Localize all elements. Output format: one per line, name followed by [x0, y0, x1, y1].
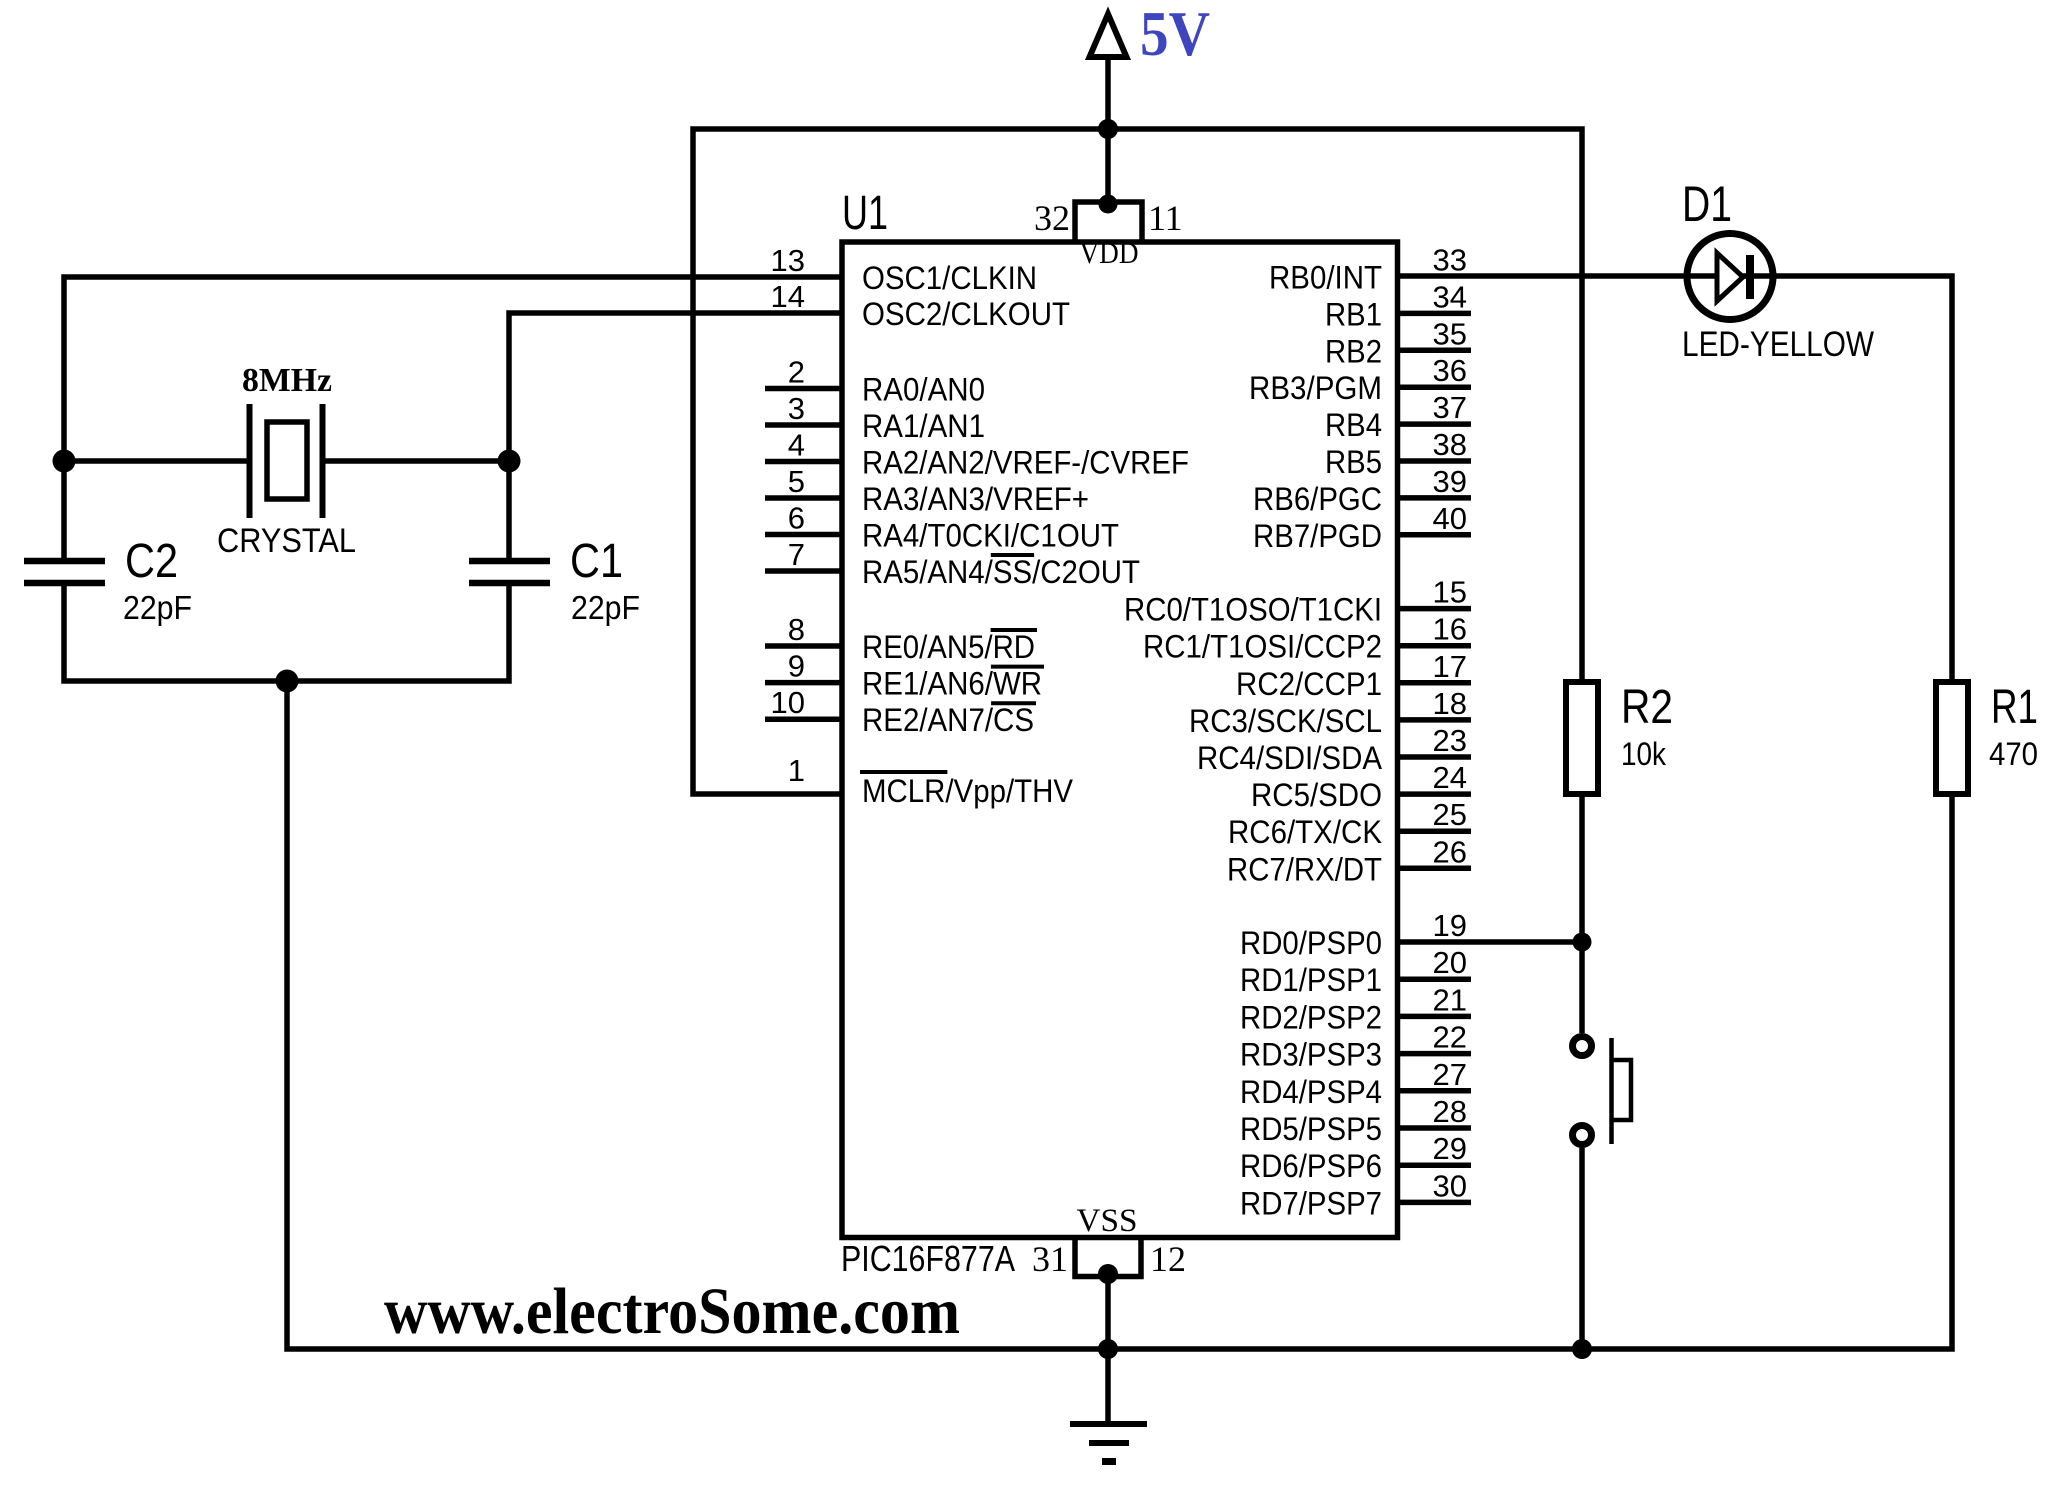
- svg-text:RD6/PSP6: RD6/PSP6: [1240, 1148, 1382, 1184]
- svg-text:22: 22: [1433, 1020, 1467, 1055]
- svg-text:5V: 5V: [1140, 0, 1210, 69]
- svg-text:VSS: VSS: [1077, 1203, 1138, 1239]
- svg-text:11: 11: [1148, 198, 1183, 238]
- svg-text:RC6/TX/CK: RC6/TX/CK: [1228, 814, 1382, 850]
- svg-text:RE1/AN6/WR: RE1/AN6/WR: [862, 666, 1042, 702]
- svg-text:RD1/PSP1: RD1/PSP1: [1240, 962, 1382, 998]
- svg-text:33: 33: [1433, 243, 1467, 278]
- svg-text:9: 9: [788, 649, 805, 684]
- svg-text:RB4: RB4: [1325, 407, 1382, 443]
- svg-text:4: 4: [788, 428, 805, 463]
- svg-text:MCLR/Vpp/THV: MCLR/Vpp/THV: [862, 773, 1074, 809]
- svg-text:23: 23: [1433, 723, 1467, 758]
- svg-text:RD4/PSP4: RD4/PSP4: [1240, 1074, 1382, 1110]
- svg-text:24: 24: [1433, 760, 1467, 795]
- svg-text:7: 7: [788, 537, 805, 572]
- svg-text:31: 31: [1032, 1239, 1068, 1279]
- svg-text:20: 20: [1433, 945, 1467, 980]
- svg-text:RD5/PSP5: RD5/PSP5: [1240, 1111, 1382, 1147]
- svg-text:LED-YELLOW: LED-YELLOW: [1682, 325, 1874, 364]
- svg-text:38: 38: [1433, 427, 1467, 462]
- svg-text:RB1: RB1: [1325, 296, 1382, 332]
- svg-text:5: 5: [788, 464, 805, 499]
- svg-text:2: 2: [788, 355, 805, 390]
- svg-text:RA1/AN1: RA1/AN1: [862, 408, 985, 444]
- svg-text:C2: C2: [125, 535, 178, 588]
- svg-text:RB0/INT: RB0/INT: [1269, 260, 1382, 296]
- svg-text:R1: R1: [1991, 681, 2038, 734]
- svg-text:RA5/AN4/SS/C2OUT: RA5/AN4/SS/C2OUT: [862, 554, 1140, 590]
- svg-text:RA4/T0CKI/C1OUT: RA4/T0CKI/C1OUT: [862, 518, 1119, 554]
- svg-text:10k: 10k: [1621, 736, 1667, 772]
- svg-text:27: 27: [1433, 1057, 1467, 1092]
- svg-text:C1: C1: [570, 535, 623, 588]
- svg-text:3: 3: [788, 391, 805, 426]
- svg-text:RD3/PSP3: RD3/PSP3: [1240, 1037, 1382, 1073]
- svg-text:RE2/AN7/CS: RE2/AN7/CS: [862, 702, 1034, 738]
- svg-text:8MHz: 8MHz: [242, 362, 332, 399]
- svg-text:RC3/SCK/SCL: RC3/SCK/SCL: [1189, 703, 1382, 739]
- svg-text:1: 1: [788, 753, 805, 788]
- svg-text:30: 30: [1433, 1168, 1467, 1203]
- svg-text:www.electroSome.com: www.electroSome.com: [384, 1275, 960, 1348]
- svg-text:RB2: RB2: [1325, 333, 1382, 369]
- svg-text:RC2/CCP1: RC2/CCP1: [1236, 666, 1382, 702]
- svg-text:35: 35: [1433, 316, 1467, 351]
- svg-text:18: 18: [1433, 686, 1467, 721]
- svg-text:32: 32: [1034, 198, 1070, 238]
- svg-text:RD7/PSP7: RD7/PSP7: [1240, 1185, 1382, 1221]
- svg-text:37: 37: [1433, 390, 1467, 425]
- svg-text:RA3/AN3/VREF+: RA3/AN3/VREF+: [862, 481, 1089, 517]
- svg-text:R2: R2: [1621, 681, 1673, 734]
- svg-text:10: 10: [771, 685, 805, 720]
- svg-text:RC1/T1OSI/CCP2: RC1/T1OSI/CCP2: [1143, 629, 1382, 665]
- svg-text:34: 34: [1433, 279, 1467, 314]
- svg-text:15: 15: [1433, 575, 1467, 610]
- svg-text:RD0/PSP0: RD0/PSP0: [1240, 925, 1382, 961]
- svg-text:RB3/PGM: RB3/PGM: [1249, 370, 1382, 406]
- svg-text:26: 26: [1433, 834, 1467, 869]
- svg-text:VDD: VDD: [1080, 235, 1139, 270]
- svg-text:19: 19: [1433, 908, 1467, 943]
- svg-text:OSC2/CLKOUT: OSC2/CLKOUT: [862, 296, 1070, 332]
- svg-text:RA0/AN0: RA0/AN0: [862, 372, 985, 408]
- svg-text:470: 470: [1989, 736, 2038, 772]
- svg-text:RB7/PGD: RB7/PGD: [1253, 518, 1382, 554]
- svg-text:8: 8: [788, 612, 805, 647]
- svg-text:12: 12: [1150, 1239, 1186, 1279]
- svg-text:RC4/SDI/SDA: RC4/SDI/SDA: [1197, 740, 1383, 776]
- svg-text:25: 25: [1433, 797, 1467, 832]
- svg-text:CRYSTAL: CRYSTAL: [217, 522, 356, 560]
- svg-text:22pF: 22pF: [571, 589, 640, 626]
- svg-text:RB5: RB5: [1325, 444, 1382, 480]
- svg-text:RA2/AN2/VREF-/CVREF: RA2/AN2/VREF-/CVREF: [862, 445, 1189, 481]
- svg-text:6: 6: [788, 501, 805, 536]
- svg-text:PIC16F877A: PIC16F877A: [841, 1238, 1015, 1279]
- svg-text:39: 39: [1433, 464, 1467, 499]
- svg-text:RE0/AN5/RD: RE0/AN5/RD: [862, 629, 1035, 665]
- svg-text:OSC1/CLKIN: OSC1/CLKIN: [862, 260, 1037, 296]
- svg-text:21: 21: [1433, 982, 1467, 1017]
- svg-text:17: 17: [1433, 649, 1467, 684]
- svg-text:U1: U1: [842, 187, 888, 240]
- svg-text:36: 36: [1433, 353, 1467, 388]
- svg-text:RC0/T1OSO/T1CKI: RC0/T1OSO/T1CKI: [1124, 592, 1382, 628]
- svg-text:22pF: 22pF: [123, 589, 192, 626]
- svg-text:D1: D1: [1682, 176, 1732, 232]
- svg-text:14: 14: [771, 279, 805, 314]
- svg-text:16: 16: [1433, 612, 1467, 647]
- svg-text:29: 29: [1433, 1131, 1467, 1166]
- svg-text:RC5/SDO: RC5/SDO: [1251, 777, 1382, 813]
- svg-text:13: 13: [771, 243, 805, 278]
- svg-text:RB6/PGC: RB6/PGC: [1253, 481, 1382, 517]
- svg-text:RC7/RX/DT: RC7/RX/DT: [1227, 851, 1382, 887]
- svg-text:RD2/PSP2: RD2/PSP2: [1240, 999, 1382, 1035]
- svg-text:40: 40: [1433, 501, 1467, 536]
- svg-text:28: 28: [1433, 1094, 1467, 1129]
